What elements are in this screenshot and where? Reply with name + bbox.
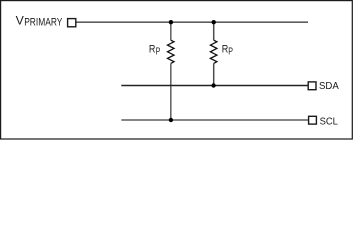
svg-text:SDA: SDA [319,81,339,92]
junction dot D (R1 / SCL rail) [169,118,173,122]
svg-text:V: V [16,14,24,28]
junction dot B (top rail / R2) [212,20,216,24]
svg-text:R: R [149,44,156,56]
wire R1 bottom lead crossing SDA down to SCL [170,63,172,120]
terminal SCL [309,116,317,124]
svg-text:P: P [228,47,233,58]
label RP (right resistor) [222,44,234,58]
wire R2 bottom lead to SDA rail [213,63,215,85]
svg-text:SCL: SCL [320,116,339,127]
svg-text:PRIMARY: PRIMARY [24,16,62,28]
node VPRIMARY label [16,14,63,29]
wire R2 top lead [213,22,215,40]
border frame [1,1,353,139]
resistor R2 (RP) zigzag [210,40,217,63]
label RP (left resistor) [149,44,161,58]
wire R1 top lead [170,22,172,40]
junction dot C (R2 / SDA rail) [211,83,215,87]
svg-text:P: P [156,47,161,58]
resistor R1 (RP) zigzag [168,40,175,63]
terminal SDA [308,82,316,90]
terminal VPRIMARY [68,19,76,27]
wire SCL rail [121,119,308,121]
junction dot A (top rail / R1) [169,20,173,24]
wire top rail from VPRIMARY terminal to x=308 [77,21,309,23]
wire SDA rail [121,85,308,87]
svg-text:R: R [222,44,229,56]
